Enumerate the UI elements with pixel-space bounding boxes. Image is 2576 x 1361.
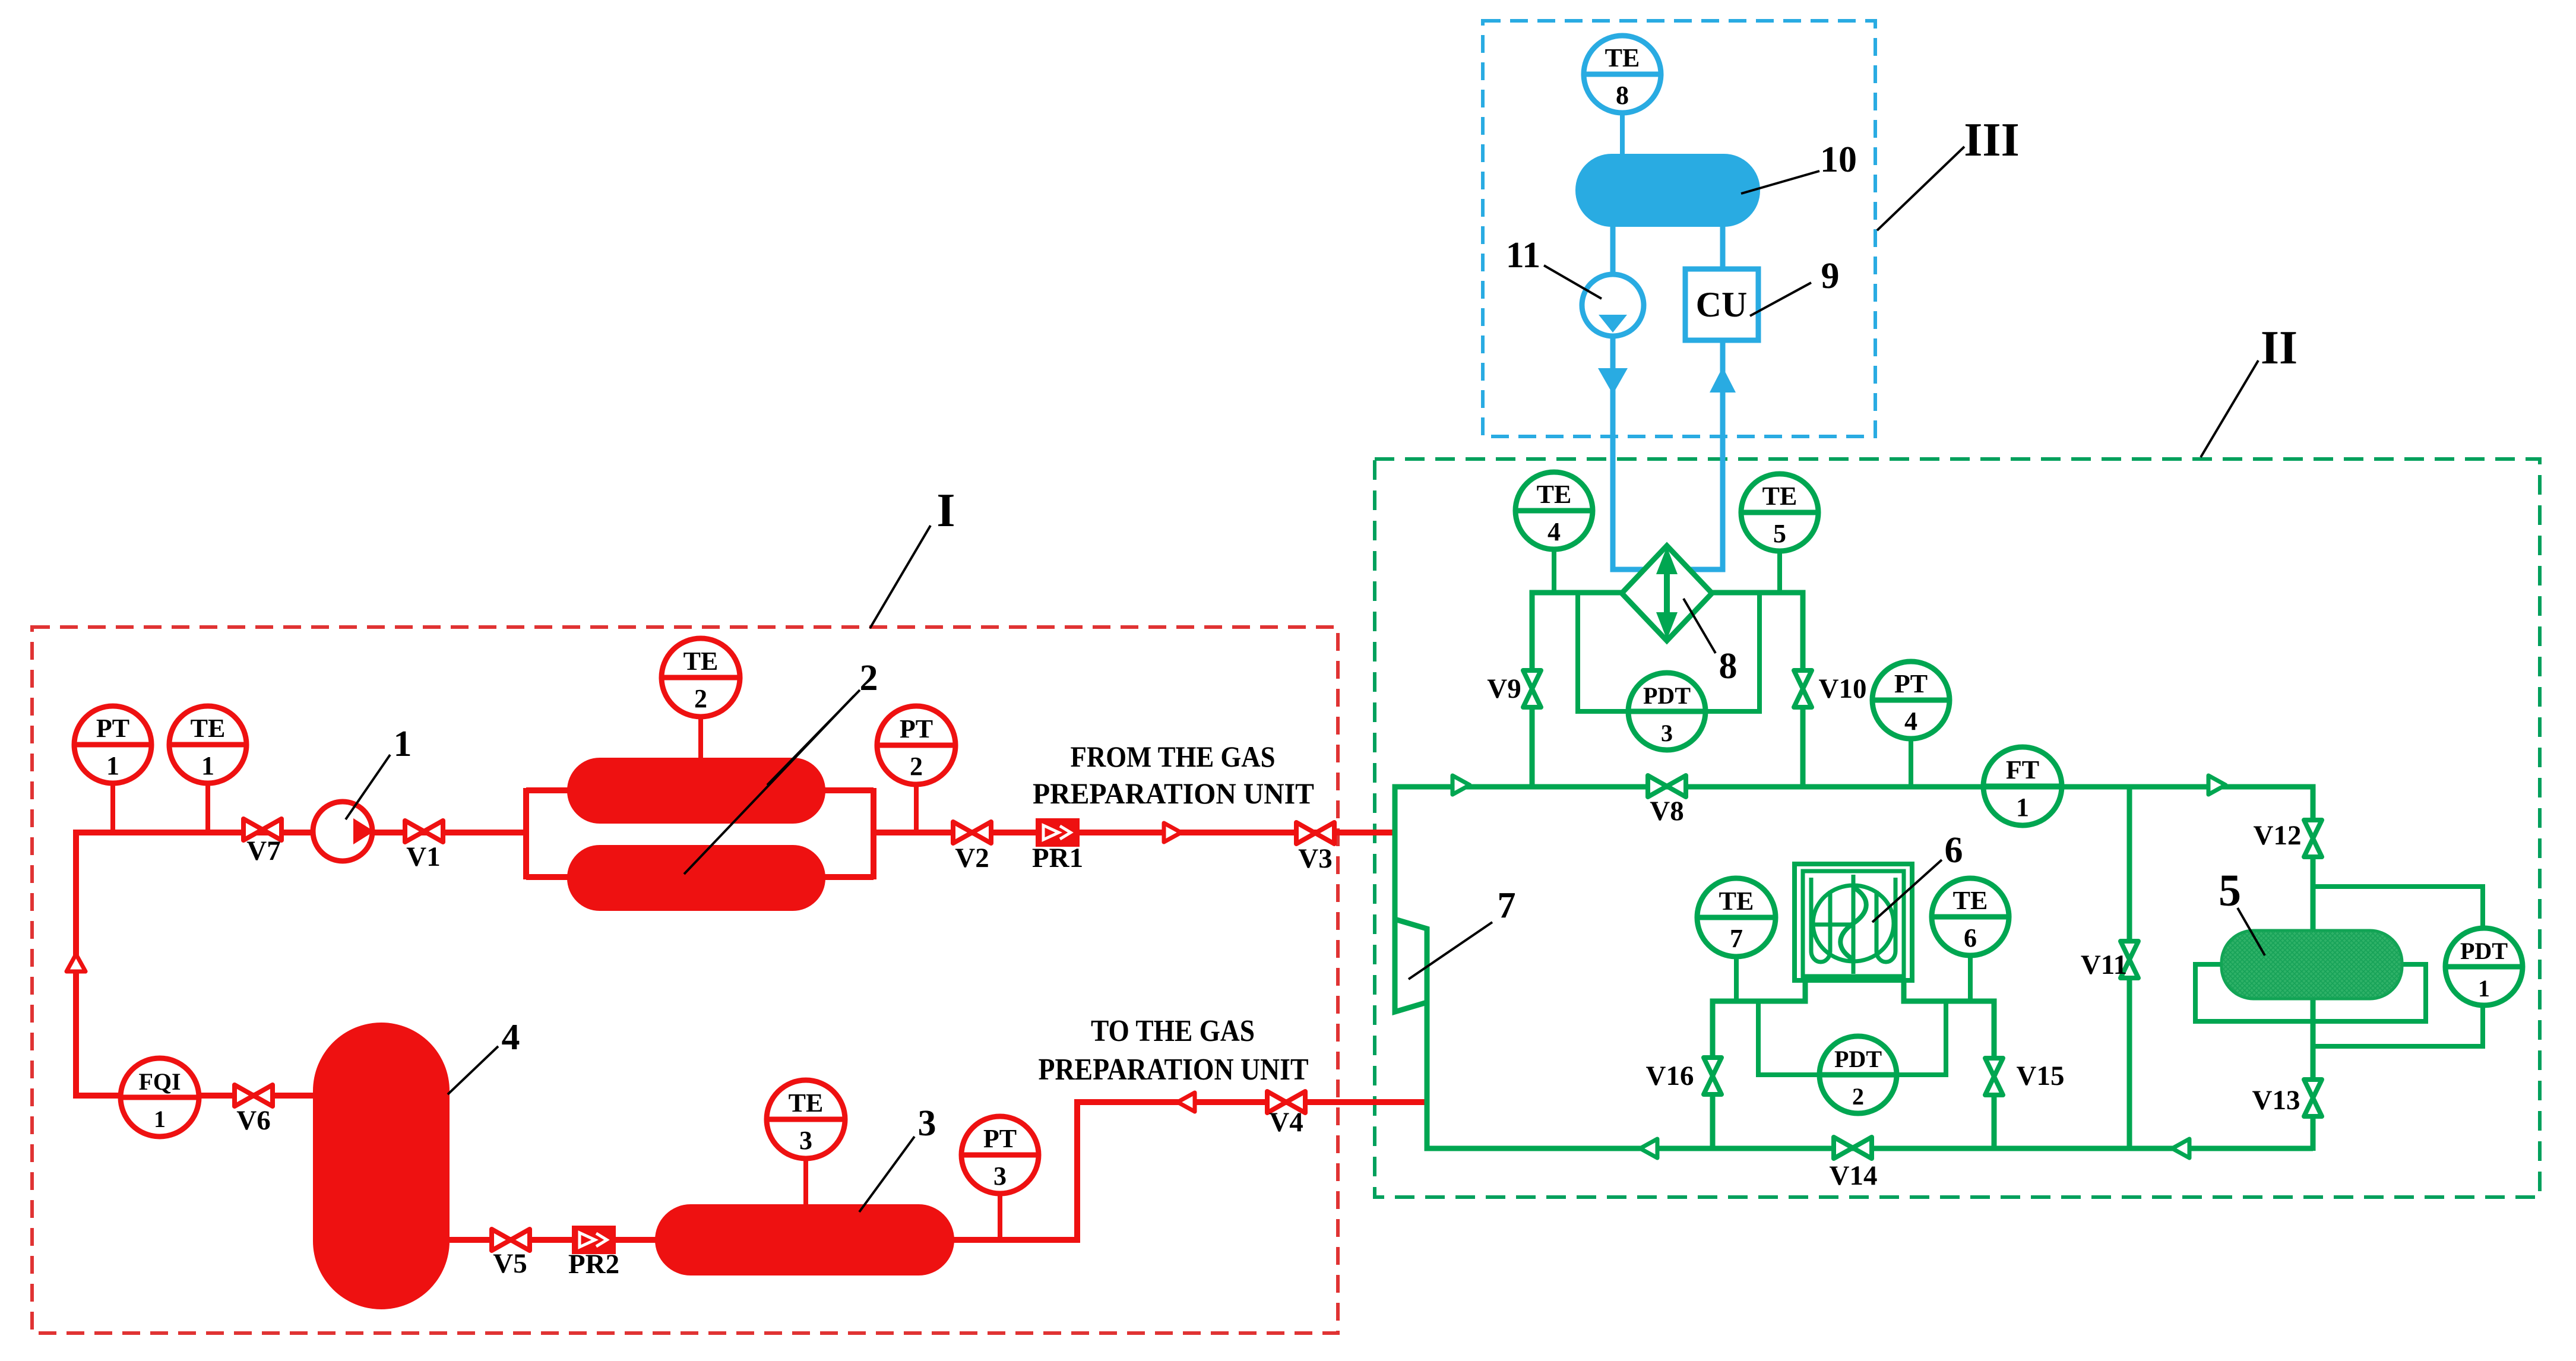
svg-text:1: 1 [394,724,412,764]
svg-text:PT: PT [1894,669,1928,698]
wire PT1 stem [110,783,115,833]
wire tank3 outlet up to TO-line through V4 [952,1102,1429,1240]
svg-text:TO THE GAS: TO THE GAS [1091,1014,1255,1048]
svg-text:TE: TE [1605,43,1640,72]
blue arrow up [1710,367,1736,393]
svg-text:V16: V16 [1646,1061,1694,1091]
svg-text:5: 5 [2219,866,2241,916]
gauge PDT3 [1628,673,1705,750]
gauge TE8 [1584,36,1661,113]
tank 4 (vertical receiver) [313,1023,450,1309]
svg-text:11: 11 [1506,235,1541,276]
blue arrow down [1598,368,1628,394]
valve V4 [1267,1091,1305,1113]
wire PT2 stem [914,783,919,833]
svg-text:2: 2 [1852,1083,1864,1110]
wire PDT1 loop [2313,887,2483,1046]
gauge TE3 [767,1080,845,1159]
svg-text:TE: TE [191,714,226,743]
svg-text:V4: V4 [1269,1107,1303,1138]
compressor 7 [1395,919,1427,1012]
wire PDT3 bypass loop [1578,593,1759,711]
valve V14 [1834,1137,1872,1159]
section II dashed boundary box [1375,459,2540,1197]
svg-text:V2: V2 [955,843,989,873]
fan heater 6 right coil [1876,878,1895,962]
svg-text:PREPARATION UNIT: PREPARATION UNIT [1039,1053,1309,1087]
wire HX8 manifold with V9/V10 branches [1532,593,1803,789]
wire blue coolant return to CU [1681,224,1723,569]
wire HX2 left manifold [526,788,570,879]
svg-text:3: 3 [1661,720,1673,746]
svg-text:3: 3 [993,1161,1007,1191]
leader to section II [2201,360,2258,457]
svg-text:V15: V15 [2017,1061,2065,1091]
wire V11 bypass vertical [2127,784,2132,1151]
fan heater 6 box [1795,864,1912,980]
wire HX2 right manifold [824,788,874,879]
valve V3 [1296,822,1334,844]
valve V13 [2304,1080,2322,1116]
wire tank4 to tank3 line V5/PR2 [450,1237,657,1243]
wire blue coolant supply from tank 10 via pump 11 [1613,224,1654,569]
valve V15 [1985,1058,2003,1095]
wire TE7 stem [1734,955,1739,1004]
svg-text:TE: TE [1537,480,1572,509]
svg-text:III: III [1964,114,2019,166]
leader to fan heater 6 [1872,860,1942,922]
svg-text:6: 6 [1964,923,1977,952]
flow arrow left on TO line [1178,1093,1195,1112]
valve V10 [1794,670,1812,707]
leader to compressor 7 [1409,922,1492,979]
gauge FT1 [1983,747,2062,825]
pressure regulator PR1 [1037,820,1078,845]
svg-text:3: 3 [918,1103,936,1144]
gauge TE7 [1697,878,1776,957]
svg-text:9: 9 [1821,256,1840,296]
gauge PDT1 [2445,928,2523,1005]
wire PT4 stem [1909,739,1913,789]
svg-text:PDT: PDT [1643,682,1691,709]
pump 1 [313,802,374,861]
svg-text:V13: V13 [2252,1085,2300,1116]
valve V7 [243,819,281,840]
svg-text:V11: V11 [2081,949,2127,980]
gauge PT2 [877,706,955,784]
svg-text:PR1: PR1 [1032,843,1083,873]
gauge TE5 [1741,474,1818,551]
svg-text:7: 7 [1498,885,1516,926]
valve V9 [1523,670,1541,707]
gauge PT1 [74,706,151,783]
svg-text:1: 1 [2016,793,2029,822]
svg-text:2: 2 [910,752,923,781]
svg-text:PT: PT [983,1124,1017,1153]
svg-text:V1: V1 [406,841,440,872]
gauge TE4 [1515,472,1593,549]
valve V5 [492,1229,530,1251]
section III dashed boundary box [1483,21,1875,436]
leader to section III [1877,147,1964,230]
svg-text:V5: V5 [493,1248,527,1279]
svg-text:V9: V9 [1487,673,1521,704]
leader to HX 8 [1683,599,1716,653]
valve V2 [953,822,991,843]
heat exchanger 8 (diamond) [1622,546,1712,641]
fan heater 6 axis and blades [1852,875,1856,974]
svg-text:TE: TE [1719,887,1754,916]
svg-text:PT: PT [96,714,129,743]
leader to adsorber 5 [2238,908,2265,955]
wire red outlet line V2/PR1/V3 to section II [874,830,1397,835]
heat exchanger 8 double arrow [1656,547,1678,640]
wire fan right stub + TE6 header + V15 branch [1904,979,1994,1151]
gauge TE2 [662,638,740,717]
wire TE6 stem [1968,955,1973,1004]
adsorber 5 support bracket [2195,964,2426,1021]
leader to pump 1 [346,755,390,819]
wire green main top line with corners [1395,787,2313,1151]
valve V1 [405,821,443,842]
svg-text:FT: FT [2006,755,2039,784]
svg-text:1: 1 [106,751,119,780]
flow arrow left on bottom return west [1640,1139,1657,1158]
svg-text:V14: V14 [1830,1160,1878,1191]
svg-text:TE: TE [1762,482,1797,511]
wire PT3 stem [998,1192,1002,1240]
leader 2 to top capsule [767,690,860,785]
svg-text:8: 8 [1719,646,1738,686]
svg-text:V7: V7 [246,835,280,866]
svg-text:10: 10 [1820,140,1857,180]
svg-text:CU: CU [1696,285,1748,324]
wire TE2 stem [698,715,703,760]
leader to tank 4 [448,1046,498,1094]
svg-text:7: 7 [1730,924,1743,953]
section I dashed boundary box [32,627,1338,1333]
svg-text:PR2: PR2 [568,1249,619,1280]
pump 11 [1582,274,1644,336]
valve V16 [1704,1058,1721,1094]
tank 10 (blue cooler vessel) [1575,154,1760,227]
gauge PT3 [961,1116,1039,1194]
wire compressor outlet + bottom return line [1427,1000,2313,1148]
gauge PT4 [1872,661,1950,739]
leader to CU 9 [1750,283,1811,316]
heat exchanger 2 (twin capsules) [567,758,825,911]
gauge FQI1 [121,1058,199,1137]
valve V8 [1648,776,1686,797]
gauge PDT2 [1819,1036,1897,1113]
wire PDT2 bypass loop [1758,999,1946,1075]
wire fan left stub + TE7 header + V16 branch [1713,979,1805,1151]
svg-text:1: 1 [2478,975,2490,1002]
leader 2 to bottom capsule [684,696,854,874]
flow arrow left on bottom return east [2172,1139,2189,1158]
wire TE4 stem [1552,549,1556,595]
svg-text:8: 8 [1616,81,1629,110]
svg-text:2: 2 [694,684,707,713]
svg-text:3: 3 [799,1126,812,1155]
svg-text:1: 1 [201,751,214,780]
valve V11 [2121,941,2138,978]
gauge TE6 [1932,878,2009,955]
svg-text:II: II [2261,322,2297,374]
svg-text:PDT: PDT [2460,938,2508,964]
flow arrow right on green main [1452,776,1470,795]
leader to pump 11 [1544,265,1602,299]
svg-text:PREPARATION UNIT: PREPARATION UNIT [1033,777,1314,810]
valve V12 [2304,820,2322,857]
fan heater 6 left coil [1811,878,1830,962]
valve V6 [235,1085,273,1106]
svg-text:V12: V12 [2254,820,2302,851]
svg-text:V3: V3 [1298,843,1332,874]
svg-text:6: 6 [1945,830,1963,871]
svg-text:FQI: FQI [138,1068,181,1095]
svg-text:I: I [936,485,955,537]
adsorber 5 (hatched capsule) [2221,930,2402,999]
fan heater 6 fan circle [1813,885,1894,961]
svg-text:PT: PT [900,714,933,743]
svg-text:1: 1 [154,1106,166,1132]
svg-text:4: 4 [502,1017,520,1058]
flow arrow up on red riser [67,954,86,971]
control unit CU box 9 [1685,269,1758,340]
pressure regulator PR2 [574,1227,614,1252]
svg-text:TE: TE [683,647,719,676]
wire TE5 stem [1777,550,1782,595]
svg-text:5: 5 [1773,519,1786,548]
svg-text:4: 4 [1904,707,1917,736]
svg-text:TE: TE [1953,886,1988,915]
wire TE3 stem [803,1157,808,1207]
svg-text:FROM THE GAS: FROM THE GAS [1071,740,1276,773]
flow arrow right on FROM line [1164,823,1181,842]
wire TE8 stem [1620,110,1625,156]
svg-text:2: 2 [860,658,878,698]
wire red main inlet + riser + FQI line [76,833,526,1096]
svg-text:V6: V6 [236,1105,270,1136]
leader to tank 10 [1741,171,1819,194]
svg-text:V10: V10 [1819,673,1867,704]
leader to section I [870,526,931,628]
leader to tank 3 [859,1137,914,1212]
tank 3 (horizontal receiver) [655,1204,954,1275]
wire TE1 stem [205,783,210,833]
flow arrow right before V12 branch [2208,776,2226,795]
svg-text:PDT: PDT [1834,1046,1882,1072]
gauge TE1 [169,706,246,783]
svg-text:V8: V8 [1650,796,1683,827]
svg-text:4: 4 [1548,517,1561,546]
svg-text:TE: TE [789,1088,824,1118]
